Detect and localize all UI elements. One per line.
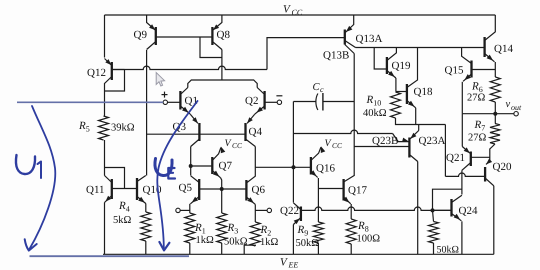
label Q21	[446, 152, 465, 164]
wire: Q10 emitter to R4	[145, 204, 147, 213]
label Q3	[173, 121, 187, 133]
wire: R5 to Q11 collector	[104, 140, 106, 176]
label R6	[471, 81, 483, 95]
label Q11	[86, 184, 105, 196]
resistor R7	[490, 124, 500, 145]
value 1kΩ	[196, 235, 215, 246]
wire: first stage output to Q16 base	[255, 166, 311, 168]
wire: Q12 base line with hops to Q13 base	[112, 38, 345, 70]
transistor Q5	[190, 176, 221, 204]
transistor Q6	[222, 176, 256, 204]
svg-text:Q9: Q9	[134, 29, 148, 41]
wire: Q21/Q24 collector to R11 node	[433, 189, 462, 210]
resistor R4	[141, 212, 151, 241]
wire: V_EE bottom supply rail	[103, 253, 494, 255]
label Q4	[249, 126, 263, 138]
svg-text:Q15: Q15	[445, 65, 464, 77]
terminal: v_out	[514, 112, 518, 116]
label Q23B	[372, 135, 398, 147]
transistor Q21	[462, 114, 490, 171]
wire: Q23 collector to V_EE	[417, 162, 419, 255]
wire: R11 to V_EE rail	[433, 243, 435, 254]
resistor R3	[217, 213, 227, 243]
wire: R10 bottom / Q18 emitter line	[396, 118, 446, 125]
transistor Q11 (diode-connected NPN)	[105, 168, 138, 203]
svg-text:Q20: Q20	[493, 161, 512, 173]
label Q13A	[356, 33, 383, 45]
label Q14	[494, 43, 513, 55]
resistor R5	[99, 116, 109, 140]
resistor R1	[185, 213, 195, 243]
label Q1	[185, 95, 198, 107]
transistor Q7	[191, 147, 226, 190]
wire: left branch vertical (Vcc rail to Q12 emitter)	[104, 15, 106, 58]
label R8	[357, 220, 369, 234]
capacitor Cc	[293, 93, 354, 111]
wire: Q22 base protection line with hops to Q24 base	[301, 207, 452, 210]
transistor Q8 (diode-connected PNP mirror)	[200, 15, 222, 80]
label R2	[260, 224, 272, 238]
node V_EE label	[280, 257, 298, 270]
resistor R10	[391, 92, 401, 118]
transistor Q19	[374, 48, 396, 92]
svg-text:Q14: Q14	[494, 43, 513, 55]
svg-text:Q22: Q22	[280, 205, 299, 217]
resistor R2	[250, 222, 260, 246]
wire: Q1/Q2 collector tie line	[188, 80, 257, 88]
label Q19	[392, 60, 411, 72]
wire: Q20 collector to V_EE rail	[493, 186, 495, 255]
svg-text:CC: CC	[292, 8, 303, 17]
label R3	[227, 222, 239, 236]
wire: R3 to V_EE rail	[221, 243, 223, 254]
svg-text:EE: EE	[288, 261, 299, 270]
wire: Q3 collector vertical	[190, 147, 192, 176]
svg-text:Q4: Q4	[249, 126, 263, 138]
svg-text:Q7: Q7	[219, 160, 233, 172]
svg-text:Q23A: Q23A	[419, 135, 446, 147]
transistor Q15	[462, 48, 496, 114]
annotation: UE arrow	[157, 101, 197, 250]
annotation: U1 label	[16, 155, 41, 178]
label Cc	[313, 82, 325, 94]
wire: Q4 collector vertical	[254, 147, 256, 177]
label V_CC stub at Q16	[325, 138, 344, 150]
terminal: non-inverting input +	[162, 92, 168, 105]
transistor Q4 (PNP common-base)	[246, 123, 256, 147]
svg-text:Q6: Q6	[252, 184, 266, 196]
label Q17	[348, 185, 367, 197]
svg-text:5kΩ: 5kΩ	[113, 215, 132, 226]
value 40kΩ	[363, 108, 387, 119]
label Q24	[459, 205, 478, 217]
wire: R6 to output node	[494, 102, 496, 114]
svg-text:Q13A: Q13A	[356, 33, 383, 45]
svg-text:Q13B: Q13B	[323, 50, 349, 62]
label Q13B	[323, 50, 349, 62]
node: output junction	[493, 112, 497, 116]
transistor Q20 (output PNP)	[445, 159, 493, 186]
svg-text:50kΩ: 50kΩ	[437, 245, 459, 256]
node V_CC label	[283, 4, 303, 18]
transistor Q13A/Q13B (dual-collector PNP)	[345, 15, 356, 54]
wire: R9 to V_EE rail	[317, 243, 319, 254]
wire: node B vertical (Cc left / Q16 base / Q22 collector)	[292, 102, 294, 203]
transistor Q16	[310, 146, 325, 222]
value 27Ω	[467, 93, 486, 104]
resistor R8	[346, 219, 356, 244]
svg-text:Q23B: Q23B	[372, 135, 398, 147]
svg-text:27Ω: 27Ω	[468, 133, 487, 144]
wire: Q12 collector to R5	[104, 91, 106, 116]
wire: V_CC top supply rail	[105, 14, 496, 16]
label R10	[366, 94, 382, 108]
transistor Q1 (input NPN)	[168, 88, 198, 124]
label R9	[297, 224, 309, 238]
transistor Q12 (diode-connected PNP)	[105, 59, 125, 92]
wire: R4 to V_EE rail	[145, 241, 147, 254]
wire: Q5 emitter to R1	[189, 204, 191, 213]
svg-text:Q12: Q12	[87, 67, 106, 79]
transistor Q22	[293, 203, 301, 255]
svg-text:27Ω: 27Ω	[467, 93, 486, 104]
value 27Ω	[468, 133, 487, 144]
resistor R6	[490, 77, 500, 102]
svg-text:out: out	[511, 103, 522, 112]
wire: R3 from junction	[221, 189, 223, 213]
annotation: blue bottom line	[30, 255, 190, 257]
svg-text:40kΩ: 40kΩ	[363, 108, 387, 119]
resistor R11	[429, 210, 439, 243]
label Q2	[245, 95, 258, 107]
wire: R7 to Q20 emitter riser	[490, 144, 495, 161]
value 1kΩ	[260, 237, 279, 248]
wire: output node to R7	[494, 114, 496, 124]
label Q8	[217, 29, 231, 41]
value 5kΩ	[113, 215, 132, 226]
label Q18	[414, 86, 433, 98]
wire: Q13B collector vertical (second stage output)	[353, 54, 355, 177]
label Q22	[280, 205, 299, 217]
svg-text:Q11: Q11	[86, 184, 105, 196]
value 50kΩ	[224, 237, 248, 248]
label V_CC stub at Q7	[225, 138, 244, 150]
wire: Q9/Q10 collector vertical	[146, 50, 148, 176]
label R5	[78, 120, 90, 134]
transistor Q18	[396, 48, 418, 125]
wire: Q21 collector vertical	[461, 170, 463, 194]
transistor Q23A/Q23B (dual PNP)	[293, 130, 418, 161]
svg-text:Q2: Q2	[245, 95, 258, 107]
value 39kΩ	[111, 123, 135, 134]
wire: R1 to V_EE rail	[189, 243, 191, 254]
svg-text:Q24: Q24	[459, 205, 478, 217]
wire: R8 to V_EE rail	[350, 244, 352, 254]
node: Q24 base / R11 junction	[431, 208, 435, 212]
value 50kΩ (R11)	[437, 245, 459, 256]
svg-text:CC: CC	[332, 141, 343, 150]
wire: R2 to V_EE rail	[244, 245, 255, 254]
label Q20	[493, 161, 512, 173]
transistor Q10	[137, 176, 146, 204]
transistor Q17	[318, 176, 354, 220]
wire: Q11 emitter to V_EE rail	[104, 203, 106, 255]
label Q6	[252, 184, 266, 196]
terminal: inverting input -	[276, 96, 282, 105]
resistor R9	[313, 222, 323, 243]
label Q10	[143, 184, 162, 196]
annotation: blue input line	[17, 101, 163, 103]
svg-text:CC: CC	[232, 141, 243, 150]
label R1	[194, 222, 206, 236]
svg-text:Q1: Q1	[185, 95, 198, 107]
svg-text:1kΩ: 1kΩ	[260, 237, 279, 248]
value 50kΩ	[296, 238, 320, 249]
transistor Q24	[433, 195, 462, 254]
svg-text:Q17: Q17	[348, 185, 367, 197]
svg-text:c: c	[320, 85, 324, 94]
svg-text:v: v	[506, 99, 511, 110]
node: Q16 base junction	[292, 165, 296, 169]
value 100Ω	[357, 234, 381, 245]
annotation: UE label	[155, 159, 175, 179]
svg-text:100Ω: 100Ω	[357, 234, 381, 245]
svg-text:Q16: Q16	[316, 163, 335, 175]
label R4	[118, 200, 130, 214]
label Q15	[445, 65, 464, 77]
transistor Q9 (PNP mirror)	[147, 15, 213, 50]
terminal: offset null left	[176, 208, 190, 212]
svg-text:50kΩ: 50kΩ	[296, 238, 320, 249]
transistor Q2 (input NPN)	[247, 88, 277, 124]
wire: Q3/Q4 base line	[147, 133, 246, 135]
label Q12	[87, 67, 106, 79]
annotation: U1 arrow	[25, 106, 56, 251]
label v_out	[506, 99, 523, 112]
label R7	[474, 119, 486, 133]
label Q5	[179, 182, 193, 194]
wire: node A line (Q13A/Q19/Q18/Q15 collectors to Q14 base)	[356, 47, 485, 49]
wire: Q20 base riser from bias network	[444, 125, 446, 177]
svg-text:Q8: Q8	[217, 29, 231, 41]
node: Q5/Q6 base - Q7 emitter junction	[220, 187, 224, 191]
label Q16	[316, 163, 335, 175]
label Q7	[219, 160, 233, 172]
wire: Q23A emitter drop	[418, 125, 420, 131]
wire: output line	[462, 113, 514, 115]
node: Q3/Q5/Q7 junction	[189, 164, 193, 168]
svg-text:39kΩ: 39kΩ	[111, 123, 135, 134]
svg-text:Q18: Q18	[414, 86, 433, 98]
transistor Q3 (PNP common-base)	[191, 123, 200, 147]
label Q9	[134, 29, 148, 41]
wire: Q6 emitter to R2	[254, 204, 256, 222]
svg-text:Q19: Q19	[392, 60, 411, 72]
svg-text:Q21: Q21	[446, 152, 465, 164]
transistor Q14 (output NPN)	[485, 15, 496, 77]
terminal: offset null right	[255, 208, 271, 212]
svg-text:1kΩ: 1kΩ	[196, 235, 215, 246]
label Q23A	[419, 135, 446, 147]
cursor glyph	[156, 73, 164, 87]
svg-text:Q5: Q5	[179, 182, 193, 194]
